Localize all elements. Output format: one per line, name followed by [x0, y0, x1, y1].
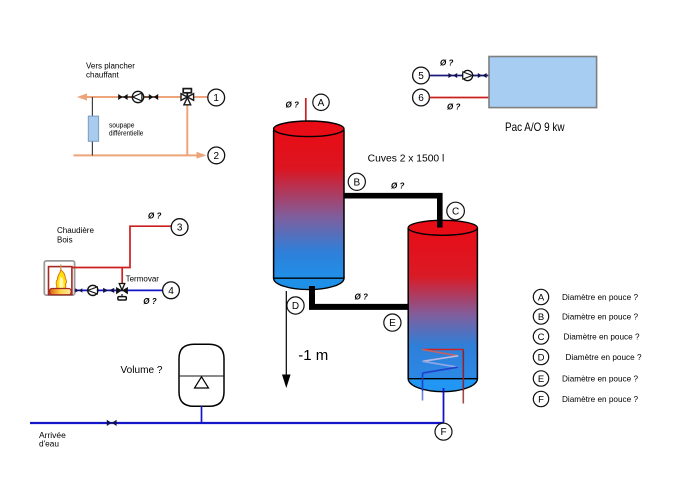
svg-text:5: 5 [418, 71, 424, 82]
svg-text:Pac A/O 9 kw: Pac A/O 9 kw [505, 120, 565, 134]
svg-text:Diamètre en pouce ?: Diamètre en pouce ? [562, 312, 638, 321]
svg-text:3: 3 [177, 223, 183, 234]
svg-text:F: F [440, 427, 446, 438]
svg-text:Bois: Bois [57, 236, 73, 245]
node D [287, 297, 304, 314]
svg-text:soupape: soupape [109, 123, 135, 130]
legend node F [533, 391, 548, 406]
wire: floor-heating supply line (orange, top) [84, 96, 208, 98]
svg-text:Vers plancher: Vers plancher [86, 62, 135, 71]
svg-text:Ø ?: Ø ? [447, 103, 460, 112]
svg-text:4: 4 [168, 286, 174, 297]
svg-text:Ø ?: Ø ? [148, 212, 161, 221]
pipe C stub entering tank 2 top [437, 220, 443, 228]
tank 1 (cuve 1500 l) [274, 98, 344, 290]
svg-text:D: D [292, 301, 299, 312]
expansion vessel [179, 344, 224, 406]
node 2 [208, 147, 225, 164]
depth arrow -1 m [282, 291, 291, 388]
node 5 [413, 67, 430, 84]
svg-text:E: E [538, 374, 544, 385]
arrow: flow to right [197, 152, 207, 159]
svg-text:chauffant: chauffant [86, 71, 120, 80]
svg-text:Diamètre en pouce ?: Diamètre en pouce ? [562, 293, 638, 302]
wire: vessel connection stub [201, 406, 203, 423]
node C [447, 202, 465, 220]
svg-text:Diamètre en pouce ?: Diamètre en pouce ? [566, 353, 642, 362]
wire: tank 2 bottom outlet (blue) to node F [443, 388, 445, 423]
arrow: flow to left [77, 93, 87, 100]
svg-text:E: E [389, 318, 396, 329]
node 6 [413, 89, 430, 106]
tank 2 (cuve 1500 l) [408, 220, 477, 391]
node E [384, 314, 401, 331]
wire: vertical orange from 3-way valve to return [186, 97, 188, 155]
svg-text:B: B [538, 312, 544, 323]
node 4 [163, 282, 180, 299]
wire: red branch down to Termovar valve [121, 268, 123, 285]
svg-text:différentielle: différentielle [109, 131, 143, 138]
node F [435, 423, 452, 440]
legend node D [533, 349, 548, 364]
wire: heat pump hot line (red) [430, 97, 490, 99]
legend node B [533, 309, 548, 324]
node B [348, 173, 365, 190]
node A [313, 94, 329, 110]
svg-text:-1 m: -1 m [298, 347, 328, 364]
svg-text:Termovar: Termovar [126, 275, 160, 284]
svg-text:2: 2 [214, 151, 220, 162]
wire: boiler hot output (red) to node 3 [72, 226, 171, 267]
valve V3 (check valve at boiler) [75, 288, 82, 292]
valve V4 (check valve) [103, 288, 114, 293]
svg-text:C: C [452, 207, 459, 218]
svg-text:Ø ?: Ø ? [143, 297, 156, 306]
valve V6 [478, 73, 487, 78]
Termovar 3-way thermic valve [116, 284, 128, 301]
pump P2 (boiler circulator) [88, 285, 98, 295]
legend node C [533, 329, 548, 344]
node 1 [208, 89, 225, 106]
pipe B-C (thick black) [344, 196, 440, 227]
legend node A [533, 289, 548, 304]
svg-text:d'eau: d'eau [39, 440, 59, 449]
wire: dark connector through valve group [119, 96, 158, 98]
wire: boiler return line (blue) [75, 289, 163, 291]
svg-text:Diamètre en pouce ?: Diamètre en pouce ? [562, 374, 638, 383]
pump P1 (circulator) [132, 91, 143, 102]
svg-text:Ø ?: Ø ? [391, 182, 404, 191]
valve V7 (cold water valve) [107, 420, 117, 426]
svg-text:A: A [538, 292, 545, 303]
wire: floor-heating return line (orange, bottom) [73, 154, 199, 156]
svg-text:A: A [318, 98, 325, 109]
pump P3 (heat pump circulator) [463, 70, 473, 80]
wood boiler (furnace icon) [44, 261, 74, 295]
svg-text:Ø ?: Ø ? [355, 293, 368, 302]
svg-text:Ø ?: Ø ? [440, 59, 453, 68]
svg-text:C: C [538, 332, 545, 343]
valve V1 (isolation valve) [118, 94, 127, 100]
heat pump PAC A/O unit [489, 57, 597, 108]
svg-text:B: B [353, 177, 360, 188]
svg-text:F: F [538, 394, 544, 405]
svg-text:Ø ?: Ø ? [286, 101, 299, 110]
svg-text:D: D [538, 352, 545, 363]
wire: cold water main (blue) [30, 422, 444, 424]
legend node E [533, 371, 548, 386]
soupape differentielle (differential valve, blue rect) [88, 116, 98, 141]
node 3 [171, 219, 188, 236]
valve V5 [448, 73, 457, 78]
svg-text:Cuves 2 x 1500 l: Cuves 2 x 1500 l [368, 154, 445, 165]
valve V2 (isolation valve) [149, 94, 158, 100]
svg-text:6: 6 [418, 93, 424, 104]
pipe D-E (thick black) [312, 286, 409, 307]
3-way mixing valve with actuator [181, 89, 194, 105]
wire: branch to differential valve [91, 97, 93, 155]
svg-text:Chaudière: Chaudière [57, 226, 94, 235]
svg-text:Volume ?: Volume ? [121, 365, 163, 376]
svg-text:1: 1 [213, 93, 219, 104]
svg-text:Diamètre en pouce ?: Diamètre en pouce ? [564, 332, 640, 341]
heat exchanger coil in tank 2 [422, 350, 463, 404]
wire: heat pump cold line (navy) [430, 75, 490, 77]
svg-text:Diamètre en pouce ?: Diamètre en pouce ? [562, 395, 638, 404]
